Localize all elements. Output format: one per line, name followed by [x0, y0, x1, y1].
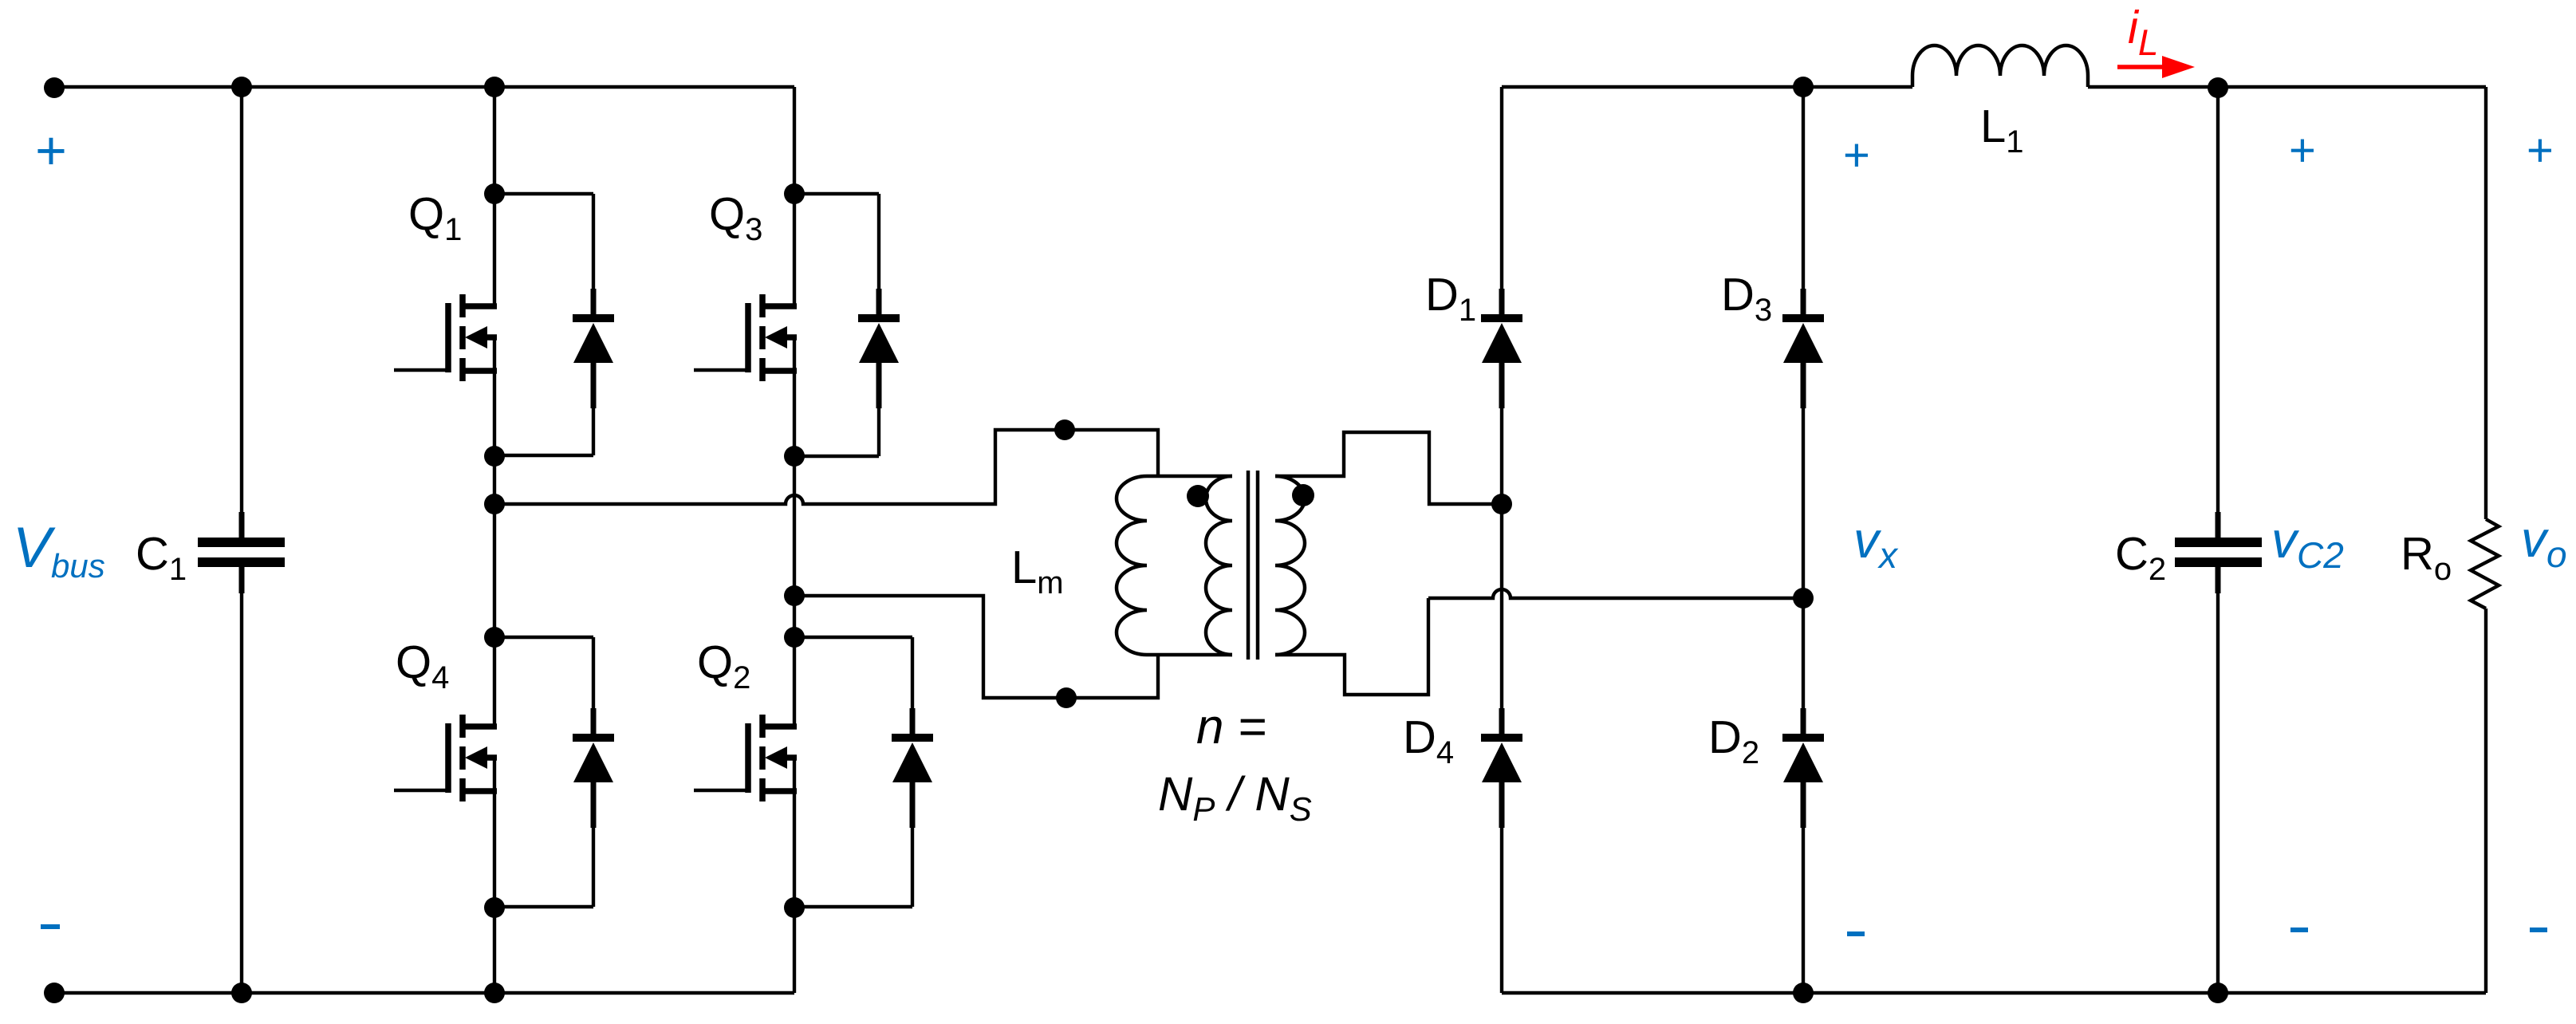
diode D2 — [1782, 708, 1824, 993]
node primary bottom terminal — [1056, 687, 1077, 708]
wire bottom-left rail — [54, 991, 794, 994]
transistor Q3 — [694, 294, 797, 456]
node Q3 source — [784, 446, 805, 467]
label vC2 minus — [2290, 928, 2308, 932]
wire Q1 drain lead — [493, 87, 496, 309]
inductor Lm winding — [1117, 476, 1147, 655]
node D2 bottom rail — [1793, 983, 1814, 1003]
node Q3 drain — [784, 183, 805, 204]
current arrow iL — [2117, 56, 2195, 78]
transistor Q2 — [694, 715, 797, 908]
diode D1 — [1481, 87, 1522, 408]
wire rectifier top rail — [1502, 85, 1912, 89]
body diode Q3 — [794, 194, 900, 456]
wire Q2 drain lead — [793, 637, 796, 729]
wire top-left rail — [54, 85, 794, 89]
wire bridge midpoint rail A with hop — [494, 430, 1158, 504]
transformer secondary winding — [1275, 476, 1305, 655]
node Q2 source — [784, 897, 805, 918]
inductor L1 — [1912, 45, 2088, 87]
svg-text:n =: n = — [1196, 699, 1266, 754]
node input minus terminal — [44, 983, 65, 1003]
wire primary bottom bus — [1147, 653, 1232, 656]
transformer primary winding — [1206, 476, 1232, 655]
node Q1 drain — [484, 183, 505, 204]
resistor Ro — [2471, 87, 2499, 993]
transistor Q1 — [394, 294, 497, 456]
wire Q3-Q2 column middle — [793, 456, 796, 637]
label vo minus — [2530, 928, 2547, 932]
label minus input — [41, 924, 60, 929]
svg-text:NP / NS: NP / NS — [1158, 767, 1312, 828]
body diode Q1 — [494, 194, 614, 455]
body diode Q4 — [494, 637, 614, 907]
wire C1 column — [240, 87, 243, 539]
node Q1 top rail — [484, 77, 505, 97]
capacitor C2 — [2175, 512, 2262, 593]
node C1 bottom — [231, 983, 252, 1003]
node L1 output — [2208, 77, 2228, 98]
node Q2 drain — [784, 627, 805, 648]
body diode Q2 — [794, 637, 933, 907]
wire vx rail with hop — [1428, 589, 1803, 598]
node Q4 bottom rail — [484, 983, 505, 1003]
wire L1 to output — [2088, 85, 2486, 89]
node vx — [1793, 588, 1814, 608]
transistor Q4 — [394, 715, 497, 908]
node Q1 source — [484, 446, 505, 467]
wire Q1-Q4 column middle — [493, 456, 496, 637]
phase dot primary — [1187, 485, 1209, 507]
node Q4 drain — [484, 627, 505, 648]
diode D4 — [1481, 708, 1522, 993]
node bridge midpoint A — [484, 494, 505, 514]
wire bottom-right rail — [1502, 991, 2486, 994]
node D3 top rail — [1793, 77, 1814, 97]
node primary top terminal — [1054, 419, 1075, 440]
wire C2 column — [2216, 87, 2220, 539]
wire D1 anode to node — [1500, 363, 1503, 736]
phase dot secondary — [1292, 484, 1314, 506]
wire Q2 source to bottom rail — [793, 908, 796, 993]
wire secondary top staircase — [1275, 432, 1502, 504]
svg-text:+: + — [2288, 124, 2315, 176]
wire Q4 drain lead — [493, 637, 496, 729]
wire secondary bottom staircase — [1275, 598, 1428, 695]
node secondary top junction — [1491, 494, 1512, 514]
diode D3 — [1782, 87, 1824, 408]
capacitor C1 — [198, 512, 285, 593]
svg-text:+: + — [34, 120, 66, 181]
transformer core — [1248, 471, 1258, 660]
node Q4 source — [484, 897, 505, 918]
wire D3 anode to vx node — [1802, 363, 1805, 736]
wire primary top bus — [1147, 475, 1232, 478]
wire Q3 drain lead — [793, 87, 796, 309]
node bridge midpoint B — [784, 585, 805, 606]
svg-text:+: + — [1842, 129, 1869, 181]
svg-text:+: + — [2526, 124, 2553, 176]
label vx minus — [1847, 931, 1865, 936]
node input plus terminal — [44, 77, 65, 98]
node C2 bottom — [2208, 983, 2228, 1003]
wire Q4 source to bottom rail — [493, 908, 496, 993]
node C1 top — [231, 77, 252, 97]
wire bridge midpoint rail B — [794, 596, 1158, 698]
